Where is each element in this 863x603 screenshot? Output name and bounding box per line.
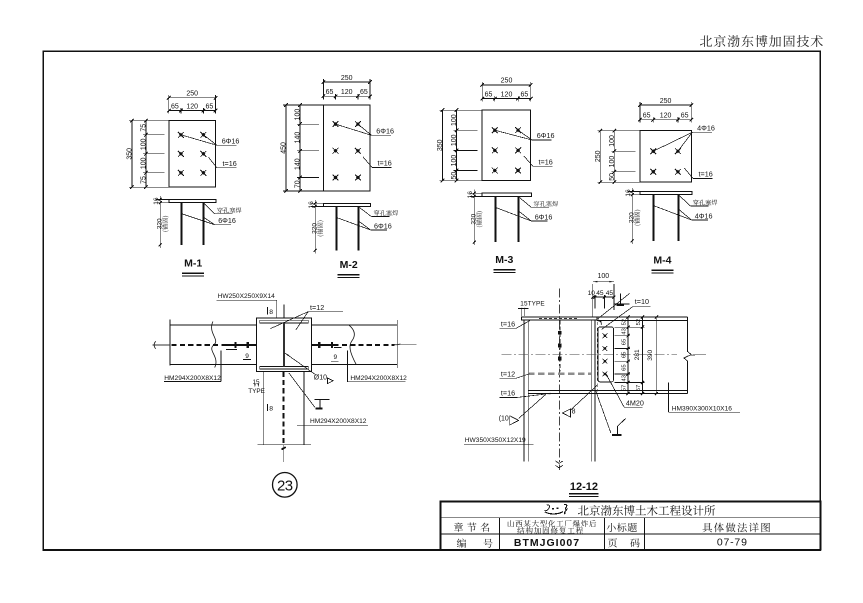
svg-text:6Φ16: 6Φ16	[374, 221, 392, 230]
svg-text:120: 120	[501, 91, 513, 98]
right dimension chain middle 52/281/57	[634, 315, 644, 395]
M-3 section base plate	[482, 193, 531, 196]
M-4 section vertical text (锚固)	[634, 210, 641, 226]
cell 章节名	[454, 522, 489, 531]
svg-text:75: 75	[141, 176, 148, 184]
cell 具体做法详图	[703, 523, 770, 533]
M-3 left dimension line 350 total	[437, 108, 482, 182]
M-1 anchor bolts on plate	[178, 132, 206, 176]
M-2 left sub-dimension chain	[295, 103, 319, 193]
M-1 section dim 320 anchorage	[156, 203, 163, 248]
M-1 view title	[182, 258, 204, 276]
svg-text:16: 16	[467, 191, 474, 199]
svg-text:HM294X200X8X12: HM294X200X8X12	[164, 375, 221, 382]
M-4 section dim 320 anchorage	[628, 195, 635, 244]
svg-text:100: 100	[141, 138, 148, 150]
left beam S-break curve	[212, 322, 216, 368]
M-1 section base plate	[169, 200, 216, 203]
M-3 top dimension line 250	[480, 78, 532, 102]
column break symbol	[556, 461, 563, 463]
page header 北京渤东博加固技术	[700, 35, 823, 47]
svg-text:65: 65	[622, 364, 628, 370]
M-4 label t=16 with leader	[684, 168, 712, 179]
detail 23 beam-column plan connection	[153, 293, 417, 497]
svg-text:65: 65	[521, 91, 529, 98]
M-2 anchor bolts on plate	[333, 121, 361, 180]
M-3 view title	[493, 254, 515, 272]
cut line above column	[283, 305, 285, 318]
svg-text:100: 100	[451, 134, 458, 146]
M-4 left dimension line 250 total	[595, 129, 640, 184]
M-1 top dimension line 250	[167, 91, 217, 114]
vertical beam centerline dashed	[283, 372, 285, 445]
svg-text:43: 43	[622, 375, 628, 381]
svg-text:t=12: t=12	[501, 369, 515, 378]
svg-text:75: 75	[141, 124, 148, 132]
connection bottom plate and beam bottom flange	[528, 389, 687, 391]
svg-text:15: 15	[252, 379, 260, 386]
M-2 top dimension line 65/120/65	[322, 89, 372, 99]
hidden line at column flange face	[596, 322, 598, 392]
svg-text:4Φ16: 4Φ16	[697, 124, 715, 133]
M-4 top dimension line 250	[638, 98, 693, 123]
svg-text:(10: (10	[499, 416, 509, 423]
detail bubble 23	[273, 473, 298, 498]
svg-text:120: 120	[660, 113, 672, 120]
svg-text:43: 43	[622, 328, 628, 334]
column web hidden bolt line with bolts	[559, 321, 561, 372]
left beam centerline	[153, 344, 171, 346]
M-4 section dim 16 plate thickness	[625, 188, 640, 197]
svg-text:57: 57	[622, 385, 628, 391]
M-3 label 6Φ16 with leaders	[495, 130, 555, 140]
company logo squiggle	[545, 505, 550, 511]
svg-text:140: 140	[295, 132, 302, 144]
svg-text:100: 100	[451, 155, 458, 167]
svg-text:250: 250	[595, 150, 602, 162]
weld symbol 8 triangle	[562, 409, 570, 417]
beam web cope hole arc	[597, 321, 602, 325]
svg-text:M-2: M-2	[340, 259, 358, 271]
M-2 section vertical text (锚固)	[317, 221, 324, 237]
svg-text:57: 57	[636, 385, 642, 391]
svg-text:320: 320	[470, 213, 477, 224]
column cap plate	[522, 317, 597, 320]
svg-text:t=16: t=16	[501, 319, 515, 328]
svg-text:6Φ16: 6Φ16	[376, 127, 394, 136]
M-1 base plate outline	[169, 121, 216, 188]
svg-text:120: 120	[186, 103, 198, 110]
beam end plate with bolts 4M20	[598, 327, 614, 382]
svg-text:4Φ16: 4Φ16	[695, 211, 713, 220]
weld mark 8 top	[267, 307, 269, 314]
svg-text:65: 65	[171, 103, 179, 110]
company name 北京渤东博土木工程设计所	[578, 505, 715, 516]
svg-text:23: 23	[277, 477, 293, 494]
cell project name two lines	[507, 520, 596, 527]
svg-text:250: 250	[341, 75, 353, 82]
detail 12-12 beam-column moment connection	[464, 273, 740, 497]
svg-text:9: 9	[245, 353, 249, 360]
M-1 top dimension line 65/120/65	[167, 103, 217, 113]
column flange plate top	[260, 320, 308, 323]
svg-text:65: 65	[622, 339, 628, 345]
M-1 section anchor bars	[181, 203, 183, 245]
column left flange	[523, 320, 525, 462]
svg-text:65: 65	[326, 89, 334, 96]
vertical beam end line	[257, 444, 310, 446]
svg-text:4M20: 4M20	[626, 398, 644, 407]
svg-text:390: 390	[647, 349, 654, 360]
svg-text:50: 50	[451, 172, 458, 180]
right beam HM294 outline	[311, 324, 396, 326]
svg-text:45: 45	[596, 290, 604, 297]
M-4 section label 4Φ16 anchors	[654, 206, 713, 221]
M-2 top dimension line 250	[322, 75, 372, 99]
title block table	[441, 501, 821, 549]
svg-text:t=16: t=16	[223, 159, 237, 168]
svg-text:65: 65	[681, 113, 689, 120]
M-3 section vertical text (锚固)	[476, 211, 483, 227]
svg-text:350: 350	[437, 139, 444, 151]
M-1 label t=16 with leader	[209, 157, 237, 168]
left beam weld 9 note	[226, 348, 237, 350]
M-1 left sub-dimension chain	[141, 119, 165, 189]
svg-text:HM294X200X8X12: HM294X200X8X12	[350, 375, 407, 382]
svg-text:t=10: t=10	[635, 297, 649, 306]
svg-text:9: 9	[333, 354, 337, 361]
beam right end break line	[684, 317, 691, 394]
M-4 section base plate	[640, 191, 692, 194]
M-4 left sub-dimension chain	[609, 129, 636, 184]
drawing sheet border	[43, 51, 820, 550]
title block row lines	[441, 517, 821, 519]
M-2 left dimension line 450 total	[281, 103, 324, 193]
M-3 section anchor bars	[495, 196, 497, 242]
M-3 section label 穿孔塞焊 plug weld	[519, 197, 558, 208]
M-4 label 4Φ16 with leaders	[653, 124, 715, 152]
svg-text:250: 250	[501, 78, 513, 85]
svg-text:100: 100	[295, 109, 302, 121]
M-3 section dim 16 plate thickness	[467, 190, 482, 199]
right beam S-break curve	[349, 325, 356, 364]
svg-text:16: 16	[153, 197, 160, 205]
svg-text:65: 65	[206, 103, 214, 110]
M-1 label 6Φ16 with leaders	[181, 135, 240, 146]
beam top flange	[597, 316, 688, 318]
M-2 section base plate	[323, 203, 370, 206]
svg-text:10: 10	[588, 290, 596, 297]
M-4 top dimension line 65/120/65	[638, 113, 693, 123]
svg-text:320: 320	[628, 212, 635, 223]
M-4 anchor bolts on plate	[650, 148, 680, 174]
svg-text:6Φ16: 6Φ16	[218, 216, 236, 225]
svg-text:281: 281	[634, 349, 641, 360]
M-4 section label 穿孔塞焊 plug weld	[679, 195, 718, 206]
hidden stiffener t=12 dashed gray	[528, 372, 591, 375]
svg-text:100: 100	[451, 114, 458, 126]
svg-text:100: 100	[597, 273, 609, 280]
svg-text:M-3: M-3	[495, 254, 513, 266]
svg-text:HW350X350X12X19: HW350X350X12X19	[465, 437, 526, 444]
M-3 left sub-dimension chain	[451, 108, 478, 182]
svg-text:M-1: M-1	[184, 258, 202, 270]
top dimension extension lines	[592, 284, 594, 317]
svg-text:16: 16	[308, 201, 315, 209]
right dimension chain inner 52/43/65/65/65/43/57	[622, 315, 630, 395]
weld mark 8 on vertical beam	[267, 404, 269, 411]
M-1 section vertical text (锚固)	[162, 216, 169, 232]
M-4 section anchor bars	[653, 195, 655, 241]
M-3 section dim 320 anchorage	[470, 196, 477, 245]
right beam break line	[397, 320, 399, 368]
svg-text:250: 250	[186, 91, 198, 98]
svg-text:52: 52	[636, 319, 642, 325]
M-2 view title	[338, 259, 360, 277]
svg-text:t=16: t=16	[539, 158, 553, 167]
cell 页码	[608, 538, 617, 547]
beam centerline	[501, 354, 677, 356]
top dimension 100	[593, 281, 614, 283]
dimension extension lines right	[615, 317, 688, 382]
svg-text:HM390X300X10X16: HM390X300X10X16	[672, 405, 732, 412]
svg-text:12-12: 12-12	[570, 481, 598, 493]
M-3 label t=16 with leader	[524, 156, 553, 167]
column right flange	[590, 320, 592, 462]
M-2 base plate outline	[323, 105, 370, 191]
title block column lines	[498, 518, 500, 550]
svg-text:HM294X200X8X12: HM294X200X8X12	[310, 418, 367, 425]
svg-text:320: 320	[311, 223, 318, 234]
M-2 label 6Φ16 with leaders	[336, 124, 395, 135]
svg-text:BTMJGI007: BTMJGI007	[514, 537, 580, 549]
left beam break line	[169, 320, 171, 366]
M-3 top dimension line 65/120/65	[480, 91, 532, 101]
svg-text:16: 16	[625, 189, 632, 197]
svg-text:50: 50	[609, 173, 616, 181]
svg-text:8: 8	[269, 309, 273, 316]
column section HW250X250X9X14 square	[256, 318, 311, 372]
M-3 section label 6Φ16 anchors	[496, 207, 553, 221]
svg-text:TYPE: TYPE	[248, 388, 265, 395]
svg-text:8: 8	[572, 408, 576, 415]
svg-text:07-79: 07-79	[717, 537, 748, 549]
svg-text:52: 52	[622, 319, 628, 325]
svg-text:8: 8	[269, 405, 273, 412]
svg-text:HW250X250X9X14: HW250X250X9X14	[218, 293, 276, 300]
cap plate weld mark	[620, 294, 622, 305]
field weld symbol bottom	[596, 391, 611, 433]
svg-text:65: 65	[360, 89, 368, 96]
svg-text:Ø10: Ø10	[314, 375, 327, 382]
svg-text:t=12: t=12	[310, 303, 324, 312]
column centerline	[558, 289, 560, 471]
cell 小标题	[607, 523, 637, 532]
vertical beam below outline	[262, 372, 264, 445]
M-3 base plate outline	[482, 110, 531, 181]
left beam bolt marks	[234, 342, 236, 348]
svg-text:6Φ16: 6Φ16	[222, 137, 240, 146]
right dimension chain outer 390	[647, 315, 658, 395]
svg-text:65: 65	[643, 113, 651, 120]
svg-text:t=16: t=16	[501, 389, 515, 398]
svg-text:70: 70	[295, 180, 302, 188]
M-2 section label 6Φ16 anchors	[337, 218, 392, 231]
svg-text:6Φ16: 6Φ16	[535, 213, 553, 222]
M-2 label t=16 with leader	[363, 157, 392, 168]
M-1 section label 6Φ16 anchors	[182, 214, 236, 226]
field weld symbol	[314, 399, 329, 401]
svg-text:120: 120	[341, 89, 353, 96]
M-2 section anchor bars	[336, 207, 338, 251]
svg-text:65: 65	[485, 91, 493, 98]
right beam weld 9 note	[334, 346, 342, 348]
svg-text:6Φ16: 6Φ16	[537, 131, 555, 140]
M-1 section dim 16 plate thickness	[153, 196, 169, 205]
column flange plate bottom	[260, 366, 308, 369]
M-1 section label 穿孔塞焊 plug weld	[204, 203, 242, 214]
svg-text:100: 100	[609, 135, 616, 147]
right beam centerline	[311, 344, 333, 346]
svg-text:15TYPE: 15TYPE	[520, 301, 544, 308]
top dimension 10/45/45	[593, 296, 614, 298]
M-1 left dimension line 350 total	[127, 119, 169, 189]
svg-text:320: 320	[156, 218, 163, 229]
M-4 view title	[651, 255, 673, 273]
M-4 base plate outline	[640, 131, 691, 183]
svg-text:250: 250	[660, 98, 672, 105]
M-2 section dim 16 plate thickness	[308, 200, 323, 209]
left beam HM294 outline	[170, 324, 256, 326]
svg-text:350: 350	[127, 148, 134, 160]
svg-text:t=16: t=16	[378, 159, 392, 168]
column web line	[283, 323, 285, 366]
svg-text:450: 450	[281, 142, 288, 154]
cell 编号	[457, 539, 466, 548]
svg-text:t=16: t=16	[699, 170, 713, 179]
right beam bolt marks	[318, 342, 320, 348]
M-2 section dim 320 anchorage	[311, 207, 318, 254]
svg-text:65: 65	[622, 352, 628, 358]
svg-text:45: 45	[606, 290, 614, 297]
M-3 anchor bolts on plate	[492, 127, 521, 173]
svg-text:M-4: M-4	[653, 255, 671, 267]
svg-text:100: 100	[141, 157, 148, 169]
M-2 section label 穿孔塞焊 plug weld	[359, 207, 399, 217]
svg-text:100: 100	[609, 156, 616, 168]
svg-text:140: 140	[295, 158, 302, 170]
